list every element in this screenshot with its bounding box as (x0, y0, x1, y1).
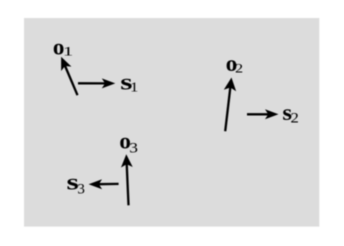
svg-text:2: 2 (291, 110, 299, 126)
svg-text:3: 3 (77, 181, 85, 197)
svg-text:1: 1 (130, 80, 138, 95)
svg-text:2: 2 (235, 62, 243, 76)
label s2 (282, 101, 298, 127)
arrow s3 (horizontal left) (89, 179, 119, 189)
label o1 (53, 34, 73, 59)
arrow s2 (horizontal right) (247, 109, 279, 119)
label o3 (119, 129, 137, 156)
gray panel (24, 18, 319, 227)
label s3 (67, 168, 85, 197)
arrow o3 (vertical up) (121, 154, 133, 205)
arrow o2 (near vertical up) (224, 78, 236, 132)
label s1 (120, 69, 138, 95)
label o2 (226, 51, 243, 76)
svg-text:1: 1 (63, 44, 73, 58)
arrow o1 (diagonal up-left) (61, 57, 77, 95)
arrow s1 (horizontal right) (78, 78, 115, 88)
svg-text:3: 3 (129, 141, 138, 156)
